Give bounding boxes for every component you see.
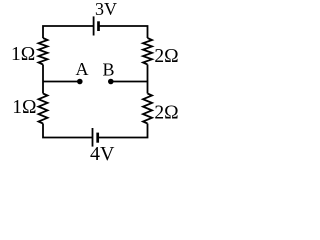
wire stub to terminal B — [112, 81, 148, 83]
svg-text:1Ω: 1Ω — [11, 44, 35, 65]
svg-text:A: A — [76, 59, 89, 79]
resistor R2 1ohm lower-left zigzag — [39, 94, 48, 124]
battery V1 3V short plate — [97, 21, 100, 31]
node A terminal dot — [77, 79, 83, 85]
node B terminal dot — [108, 79, 114, 85]
wire top-right corner segment — [99, 26, 148, 38]
battery V2 4V short plate — [96, 133, 99, 143]
battery V1 3V long plate — [93, 16, 95, 35]
wire top-left corner segment — [43, 26, 93, 38]
wire right rail middle segment — [147, 65, 149, 94]
wire bottom-right corner segment — [98, 124, 148, 138]
resistor R3 2ohm upper-right zigzag — [143, 38, 152, 65]
wire stub to terminal A — [43, 81, 79, 83]
svg-text:B: B — [103, 59, 115, 79]
resistor R4 2ohm lower-right zigzag — [143, 94, 152, 124]
wire bottom-left corner segment — [43, 124, 92, 138]
svg-text:2Ω: 2Ω — [154, 102, 178, 123]
battery V2 4V long plate — [92, 128, 94, 147]
svg-text:1Ω: 1Ω — [12, 97, 36, 118]
wire left rail middle segment — [42, 65, 44, 94]
svg-text:4V: 4V — [90, 143, 115, 165]
svg-text:3V: 3V — [95, 0, 117, 19]
svg-text:2Ω: 2Ω — [154, 46, 178, 67]
resistor R1 1ohm upper-left zigzag — [39, 38, 48, 65]
